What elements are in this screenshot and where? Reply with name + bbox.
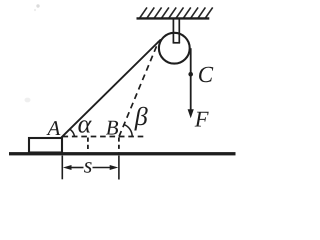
dashed horizontal line through A and B xyxy=(63,136,147,138)
scan smudge left-middle xyxy=(25,98,31,103)
pulley bracket xyxy=(173,20,181,43)
dimension line s (left segment + arrow) xyxy=(70,167,84,169)
dashed block left edge xyxy=(87,138,89,153)
scan smudge top-left xyxy=(34,4,40,11)
angle arc alpha at A xyxy=(70,129,75,137)
angle arc beta at B xyxy=(124,124,132,136)
svg-text:F: F xyxy=(194,107,209,132)
point C dot xyxy=(188,72,193,77)
rope pulley down to C and F arrow xyxy=(190,48,192,110)
block at position A (solid) xyxy=(29,138,62,153)
arrowhead F xyxy=(188,109,194,118)
svg-text:β: β xyxy=(134,102,148,131)
dimension line s (right segment + arrow) xyxy=(93,167,112,169)
dimension tick below A xyxy=(61,156,63,180)
svg-text:B: B xyxy=(106,115,119,139)
pulley wheel xyxy=(159,33,190,64)
ground line xyxy=(9,152,236,155)
svg-text:A: A xyxy=(46,116,61,140)
dimension tick below B xyxy=(118,156,120,180)
svg-text:α: α xyxy=(78,109,93,138)
ceiling hatching xyxy=(139,7,213,19)
rope A to pulley (solid) xyxy=(61,40,160,138)
rope B to pulley (dashed) xyxy=(119,41,159,136)
dashed block right edge xyxy=(118,137,120,152)
ceiling line xyxy=(137,17,210,19)
svg-text:s: s xyxy=(84,153,93,178)
svg-text:C: C xyxy=(198,62,214,87)
